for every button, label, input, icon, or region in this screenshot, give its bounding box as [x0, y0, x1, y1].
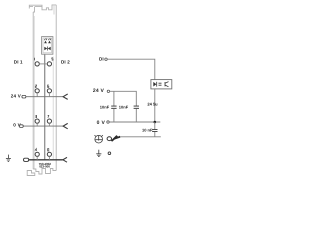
module housing left edge — [32, 12, 34, 169]
functional earth circle symbol — [95, 135, 103, 143]
svg-text:DI 1: DI 1 — [14, 60, 23, 65]
wire DI to optocoupler — [107, 59, 155, 79]
svg-text:0 V: 0 V — [97, 120, 106, 126]
terminal 7 pin number — [48, 115, 49, 117]
stub terminal 4 to earth rail — [36, 156, 38, 159]
24V field rail — [26, 96, 63, 98]
earth power jumper blade — [63, 157, 67, 162]
svg-text:24 V: 24 V — [11, 94, 21, 99]
wire C1 bottom to 0V — [113, 109, 115, 122]
svg-text:10nF: 10nF — [119, 105, 129, 110]
internal bus wire — [44, 54, 46, 159]
svg-text:24 5u: 24 5u — [147, 102, 158, 107]
module inner left edge line — [33, 16, 35, 169]
wire 0V to C3 — [154, 122, 156, 129]
LED D1 arrow symbol — [44, 41, 47, 44]
latch stem — [33, 7, 34, 12]
terminal 1 pin number — [34, 58, 36, 61]
wire stub terminal 5 to bus — [45, 63, 48, 65]
24V power jumper blade — [63, 94, 68, 99]
stub terminal 8 to earth rail — [48, 156, 50, 159]
legend earth symbol — [96, 150, 101, 157]
DIN rail release latch lever — [29, 5, 42, 8]
module housing right edge — [55, 5, 57, 171]
wire optocoupler to 0V rail — [154, 89, 156, 122]
stub terminal 6 to 24V rail — [48, 93, 50, 97]
LED indicator box U1 — [42, 37, 53, 55]
optocoupler transistor symbol — [165, 82, 169, 87]
wire C2 bottom to 0V — [135, 109, 137, 122]
capacitor C1 — [111, 106, 116, 108]
terminal 6 pin number — [48, 85, 49, 87]
terminal 8 pin number — [48, 149, 49, 151]
0V schematic rail — [109, 121, 160, 123]
legend terminal circle — [108, 152, 111, 155]
terminal 8 circle (earth) — [47, 152, 51, 156]
0V schematic terminal circle — [107, 121, 109, 123]
svg-text:DI 2: DI 2 — [61, 60, 70, 65]
optocoupler box U2 — [151, 80, 172, 89]
terminal 4 pin number — [35, 149, 37, 151]
24V schematic rail — [110, 91, 137, 105]
svg-text:10 nF: 10 nF — [142, 127, 153, 132]
terminal 7 circle (0V) — [47, 119, 51, 123]
terminal 1 circle (DI 1) — [35, 62, 39, 66]
housing bottom profile — [33, 169, 56, 175]
wire branch C1 top — [113, 91, 115, 105]
earth rail (schematic) — [120, 136, 161, 138]
wire C3 to earth rail — [154, 132, 156, 137]
stub terminal 3 to 0V rail — [36, 123, 38, 126]
24V schematic terminal circle — [107, 90, 109, 92]
housing top inner notch line — [53, 5, 55, 15]
housing top profile — [42, 5, 56, 10]
svg-text:10nF: 10nF — [100, 105, 110, 110]
optocoupler light arrows — [159, 83, 162, 85]
svg-text:DI: DI — [99, 56, 104, 61]
optocoupler LED symbol — [153, 82, 156, 87]
terminal 5 pin number — [52, 58, 53, 60]
DI terminal circle — [105, 58, 107, 60]
terminal 2 circle (24V) — [35, 89, 39, 93]
earth label connector oval — [24, 158, 29, 161]
terminal 4 circle (earth) — [35, 152, 39, 156]
stub terminal 2 to 24V rail — [36, 93, 38, 97]
junction node 0V / DI return — [154, 121, 157, 124]
svg-text:24 V: 24 V — [93, 88, 105, 94]
housing bottom left foot — [27, 171, 35, 176]
stub terminal 7 to 0V rail — [48, 123, 50, 126]
terminal 6 circle (24V) — [47, 89, 51, 93]
earth field rail — [29, 159, 63, 161]
carrier rail contact arrow — [107, 137, 111, 141]
LED D2 arrow symbol — [48, 41, 51, 44]
terminal 5 circle (DI 2) — [47, 62, 51, 66]
svg-text:023-000: 023-000 — [39, 165, 50, 169]
capacitor C3 — [152, 129, 157, 131]
terminal 3 circle (0V) — [35, 119, 39, 123]
0V label connector oval — [19, 125, 23, 128]
capacitor C2 — [134, 106, 139, 108]
earth symbol left — [6, 155, 11, 162]
24V label connector oval — [22, 95, 26, 98]
0V field rail — [23, 125, 63, 127]
terminal 3 pin number — [35, 115, 36, 117]
diode pair symbol — [44, 47, 47, 50]
0V power jumper blade — [63, 123, 68, 128]
terminal 2 pin number — [35, 85, 36, 87]
wire stub terminal 1 to bus — [39, 63, 44, 65]
module inner right edge line — [52, 57, 54, 160]
